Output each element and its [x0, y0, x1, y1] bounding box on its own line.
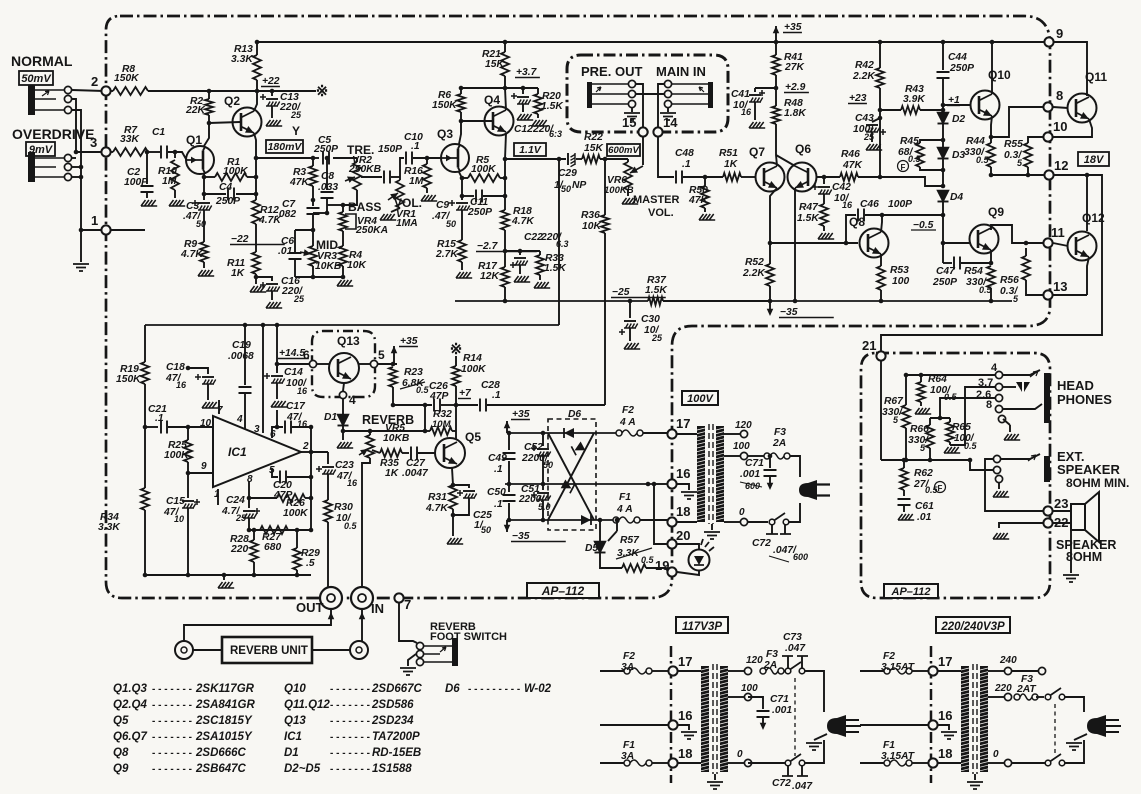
svg-text:- - - - - - -: - - - - - - - — [152, 764, 192, 775]
svg-text:.1: .1 — [682, 159, 691, 170]
wire — [256, 80, 258, 91]
transistor Q7 — [756, 163, 785, 192]
switch 220V bottom — [1045, 760, 1051, 766]
svg-text:250KA: 250KA — [355, 225, 388, 236]
wire bus to ground — [80, 230, 82, 262]
ground R50 — [699, 214, 715, 220]
ground R15 — [456, 272, 472, 278]
svg-text:2SA841GR: 2SA841GR — [195, 699, 256, 711]
box AP-112 main — [527, 583, 599, 598]
wire — [203, 262, 205, 268]
wire to C10 — [400, 158, 404, 177]
switch power — [769, 519, 775, 525]
wire lamp feed — [654, 484, 667, 544]
wire — [728, 696, 744, 698]
transistor Q11 — [1068, 94, 1097, 123]
transistor Q4 — [485, 107, 514, 136]
220/240V transformer dash-dot line — [930, 646, 933, 783]
svg-text:C73: C73 — [783, 632, 802, 643]
ground foot switch — [408, 654, 416, 666]
svg-text:C42: C42 — [832, 182, 851, 193]
contact 4 — [339, 391, 346, 398]
svg-text:Q1: Q1 — [186, 133, 202, 147]
contact 240 — [1038, 667, 1045, 674]
wire — [296, 570, 298, 575]
svg-text:R64: R64 — [928, 374, 947, 385]
wire — [452, 509, 454, 536]
wire — [456, 404, 478, 406]
wire pin14 down to C48 — [658, 136, 674, 177]
svg-text:C23: C23 — [335, 460, 354, 471]
svg-text:17: 17 — [938, 654, 952, 669]
svg-text:D5: D5 — [585, 543, 598, 554]
resistor R15 — [458, 240, 466, 262]
svg-text:C18: C18 — [166, 362, 185, 373]
wire Q2 emitter down — [254, 133, 256, 200]
svg-text:R54: R54 — [964, 266, 983, 277]
svg-text:1.5K: 1.5K — [541, 101, 564, 112]
capacitor C27 — [411, 447, 417, 460]
fuse F3 — [764, 453, 770, 459]
svg-text:4: 4 — [991, 362, 998, 374]
wire — [508, 484, 510, 492]
wire -35 rail — [770, 300, 1012, 302]
switch 117V top — [785, 668, 791, 674]
wire — [504, 230, 506, 267]
wire — [187, 508, 189, 575]
wire — [327, 204, 343, 206]
svg-text:D2: D2 — [952, 114, 965, 125]
wire Q10 collector to rail — [991, 42, 993, 94]
wire — [629, 328, 631, 341]
svg-text:16: 16 — [678, 708, 692, 723]
svg-text:C61: C61 — [915, 501, 934, 512]
resistor R43 — [901, 106, 920, 114]
wire — [880, 290, 882, 301]
wire — [187, 462, 189, 473]
contact ext ring — [993, 466, 1000, 473]
wire — [505, 250, 540, 252]
wire — [912, 670, 928, 672]
fuse F2 220V — [884, 668, 890, 674]
svg-text:250P: 250P — [467, 207, 492, 218]
wire — [938, 762, 961, 764]
svg-text:0.5: 0.5 — [416, 385, 430, 395]
wire — [600, 670, 624, 672]
svg-text:D1: D1 — [324, 412, 337, 423]
wire C28 to R36 rail — [487, 404, 605, 406]
svg-text:10: 10 — [1053, 119, 1067, 134]
contact 3.7 — [995, 383, 1002, 390]
wire — [604, 159, 606, 215]
junction — [311, 156, 316, 161]
ground headphone — [1009, 425, 1011, 432]
svg-text:C17: C17 — [286, 401, 306, 412]
wire 0V rail — [505, 483, 655, 485]
wire — [247, 176, 256, 178]
svg-text:D6: D6 — [568, 409, 581, 420]
capacitor C73 — [787, 656, 789, 668]
ground PRE OUT sleeve — [631, 108, 633, 112]
wire — [253, 562, 255, 575]
svg-text:R14: R14 — [463, 353, 482, 364]
wire IC pin 6 — [272, 427, 277, 438]
wire 16 row — [600, 724, 668, 726]
wire — [600, 553, 622, 568]
svg-text:3.3K: 3.3K — [231, 54, 254, 65]
capacitor C6 — [294, 230, 296, 252]
wiper VR5 to R35 — [372, 450, 380, 453]
resistor R47 — [820, 204, 828, 226]
wire — [462, 195, 474, 197]
wire to D4 — [880, 177, 943, 186]
wire tap 120 — [724, 433, 740, 435]
fuse F3 220V — [1014, 694, 1020, 700]
wire — [942, 159, 944, 186]
wire to C23 — [311, 451, 328, 453]
svg-text:.01: .01 — [917, 512, 932, 523]
ground VR1 — [380, 214, 396, 220]
PRE OUT / MAIN IN dash-dot box — [567, 55, 728, 132]
svg-text:16: 16 — [938, 708, 952, 723]
contact 6 — [309, 360, 316, 367]
ground MAIN IN sleeve — [667, 108, 669, 112]
pin 22 — [1043, 518, 1052, 527]
diode D4 — [938, 191, 949, 202]
svg-text:C43: C43 — [855, 113, 874, 124]
svg-text:150K: 150K — [114, 73, 140, 84]
wire — [392, 387, 394, 405]
ground C43 — [866, 144, 882, 150]
svg-text:.001: .001 — [772, 705, 792, 716]
svg-text:SPEAKER: SPEAKER — [1057, 462, 1120, 477]
wire — [860, 762, 884, 764]
svg-text:180mV: 180mV — [268, 141, 303, 153]
svg-text:7: 7 — [404, 597, 411, 612]
svg-text:16: 16 — [741, 107, 752, 117]
svg-text:+2.9: +2.9 — [785, 82, 806, 93]
wire — [393, 346, 395, 364]
wire — [506, 520, 508, 532]
wire — [402, 452, 409, 454]
svg-text:13: 13 — [1053, 279, 1067, 294]
svg-text:250P: 250P — [313, 144, 338, 155]
svg-text:100K: 100K — [223, 166, 249, 177]
svg-text:18: 18 — [676, 504, 690, 519]
svg-text:8OHM MIN.: 8OHM MIN. — [1066, 476, 1129, 490]
svg-text:C50: C50 — [487, 487, 506, 498]
resistor R52 — [766, 264, 774, 286]
wire pin1 stub — [110, 229, 145, 231]
svg-text:C71: C71 — [745, 458, 764, 469]
wire — [748, 455, 764, 457]
ground R9 — [198, 270, 214, 276]
jack MAIN IN — [708, 82, 713, 108]
capacitor C29 NP — [567, 153, 569, 165]
wire Q6 base row — [816, 176, 840, 178]
wire pin 22 to speaker — [1052, 522, 1071, 524]
wire — [1025, 248, 1027, 256]
resistor R57 — [622, 564, 646, 572]
svg-text:0.5: 0.5 — [925, 485, 939, 495]
wire — [990, 167, 992, 175]
resistor R32 — [430, 427, 452, 435]
resistor R2 — [205, 99, 213, 115]
svg-text:R44: R44 — [966, 136, 985, 147]
junction — [202, 175, 207, 180]
RCA plug left — [175, 641, 193, 659]
ground plug 117V — [814, 734, 827, 740]
svg-text:250P: 250P — [215, 196, 240, 207]
RCA plug right — [350, 641, 368, 659]
AC plug 117V — [827, 715, 846, 737]
capacitor C2 — [146, 152, 148, 184]
resistor R33 — [539, 251, 541, 255]
resistor R42 — [876, 68, 884, 88]
junction — [503, 249, 508, 254]
wire reverb feed row — [343, 430, 425, 432]
wire — [461, 178, 463, 200]
wire Q8 base row — [770, 242, 858, 244]
wire — [769, 286, 771, 301]
svg-text:0.5: 0.5 — [976, 155, 990, 165]
svg-text:0: 0 — [739, 507, 745, 518]
svg-text:.0047: .0047 — [402, 468, 429, 479]
resistor R11 — [252, 252, 260, 274]
resistor R22 — [582, 155, 600, 163]
wire fuse to pin 17 — [655, 432, 668, 434]
wire — [204, 193, 226, 195]
svg-text:16: 16 — [347, 478, 358, 488]
svg-text:1K: 1K — [724, 159, 739, 170]
wire — [312, 266, 314, 277]
capacitor C61 — [898, 499, 911, 505]
svg-text:25: 25 — [235, 513, 247, 523]
wire — [504, 159, 506, 210]
svg-text:R31: R31 — [428, 492, 447, 503]
svg-text:R36: R36 — [581, 210, 600, 221]
wire contact 5 node — [378, 363, 397, 365]
svg-text:.047: .047 — [792, 781, 813, 792]
contact ext tip — [993, 455, 1000, 462]
svg-text:C24: C24 — [226, 495, 245, 506]
wire Q9 base — [943, 242, 970, 244]
wire — [343, 383, 344, 391]
svg-text:C72: C72 — [772, 778, 791, 789]
box REVERB UNIT — [222, 637, 312, 663]
wire — [704, 177, 706, 186]
pin 15 — [638, 127, 647, 136]
wire to Q3 gate — [413, 157, 441, 159]
svg-text:680: 680 — [264, 542, 281, 553]
svg-text:6: 6 — [303, 348, 310, 362]
capacitor C12 — [522, 88, 524, 94]
svg-text:IC1: IC1 — [228, 445, 247, 459]
svg-text:C15: C15 — [166, 496, 185, 507]
resistor R31 — [449, 485, 457, 509]
fuse F1 117V — [624, 760, 630, 766]
svg-text:27K: 27K — [784, 62, 805, 73]
svg-text:0.5: 0.5 — [344, 521, 358, 531]
resistor R55 — [1024, 143, 1032, 167]
wire — [754, 102, 756, 120]
wire — [949, 442, 951, 445]
svg-text:- - - - - - -: - - - - - - - — [152, 684, 192, 695]
resistor R5 — [468, 174, 500, 182]
wire — [748, 762, 785, 764]
wire to Q4 base — [461, 120, 493, 122]
svg-text:−25: −25 — [612, 287, 630, 298]
wire — [248, 498, 250, 508]
ground plug 220V — [1074, 734, 1087, 740]
wire — [508, 461, 510, 484]
svg-text:C71: C71 — [770, 694, 789, 705]
wire — [678, 762, 701, 764]
wire — [255, 274, 257, 284]
ground Q5 — [447, 538, 463, 544]
svg-text:−22: −22 — [231, 234, 249, 245]
ground R64 — [915, 408, 931, 414]
resistor R19 — [141, 362, 149, 384]
wire — [920, 375, 922, 382]
svg-text:4.7K: 4.7K — [511, 216, 535, 227]
potentiometer VR4 BASS — [339, 212, 347, 231]
svg-text:Q2.Q4: Q2.Q4 — [113, 699, 147, 711]
wire — [542, 500, 544, 520]
wire — [391, 176, 400, 178]
arrow -35 — [767, 309, 774, 316]
wire — [652, 762, 668, 764]
svg-text:AP–112: AP–112 — [541, 584, 585, 598]
power transformer 220V — [961, 666, 969, 772]
wire — [903, 490, 905, 496]
wire — [988, 670, 1004, 672]
svg-text:2.7K: 2.7K — [435, 249, 459, 260]
svg-text:C14: C14 — [284, 367, 303, 378]
wire contact 6 to C14 — [277, 363, 309, 365]
svg-text:C1: C1 — [152, 127, 165, 138]
speaker section dash-dot border — [861, 353, 1050, 598]
svg-text:2SD667C: 2SD667C — [371, 683, 423, 695]
wire -25 rail — [455, 300, 648, 302]
svg-text:19: 19 — [655, 558, 669, 573]
wire — [248, 518, 250, 530]
pin 16 — [667, 479, 676, 488]
svg-text:14: 14 — [663, 115, 678, 130]
wire — [1036, 696, 1044, 698]
resistor R41 — [772, 55, 780, 75]
wire — [942, 42, 944, 70]
resistor R54 — [987, 266, 995, 288]
wire Q7 emitter down — [770, 188, 777, 264]
wire — [148, 151, 160, 153]
capacitor C72 — [771, 525, 773, 534]
wire — [253, 530, 255, 540]
wire signal row — [505, 158, 566, 160]
svg-text:R23: R23 — [404, 367, 423, 378]
ground C14 — [271, 401, 287, 407]
svg-text:25: 25 — [863, 132, 875, 142]
wire Q3 source — [459, 172, 462, 178]
wire IC pin 3 — [262, 325, 264, 433]
svg-text:47K: 47K — [289, 177, 310, 188]
wire — [652, 670, 668, 672]
wire VR2 bottom to BASS — [343, 190, 357, 205]
svg-text:50: 50 — [561, 184, 571, 194]
svg-text:R22: R22 — [584, 132, 603, 143]
wire — [871, 132, 873, 142]
pin 20 — [667, 539, 676, 548]
wire headphone 4 row — [906, 374, 999, 376]
ground R20 — [532, 120, 548, 126]
transistor Q12 — [1068, 232, 1097, 261]
wire — [655, 483, 660, 485]
wire — [683, 176, 723, 178]
transistor Q13 — [329, 353, 359, 383]
wire — [748, 521, 768, 523]
svg-text:3.9K: 3.9K — [903, 94, 926, 105]
svg-text:D4: D4 — [950, 192, 963, 203]
wire sleeve bus — [72, 110, 81, 230]
junction — [1085, 173, 1090, 178]
Q13 dash-dot box — [312, 331, 375, 397]
wire IN jack from reverb unit — [361, 609, 363, 641]
svg-text:250KB: 250KB — [348, 164, 382, 175]
svg-text:.1: .1 — [411, 141, 420, 152]
wire Q8 emitter — [880, 254, 882, 266]
resistor R17 — [501, 267, 509, 287]
svg-text:D1: D1 — [284, 747, 299, 759]
svg-text:IN: IN — [371, 601, 384, 616]
wire — [144, 384, 146, 427]
svg-text:- - - - - - -: - - - - - - - — [330, 732, 370, 743]
wire — [942, 79, 944, 108]
wire hp tip — [1003, 370, 1040, 375]
svg-text:1S1588: 1S1588 — [372, 763, 412, 775]
wire — [244, 394, 246, 429]
svg-text:Q2: Q2 — [224, 94, 240, 108]
resistor R8 — [113, 87, 148, 95]
resistor R18 — [501, 210, 509, 230]
svg-text:Q9: Q9 — [113, 763, 129, 775]
wire Q3 drain — [459, 112, 461, 144]
svg-text:.0068: .0068 — [228, 351, 254, 362]
svg-text:R52: R52 — [745, 257, 764, 268]
wire to Q7 base — [741, 176, 756, 178]
bridge diodes — [548, 433, 594, 520]
ground pin 16 117V — [678, 725, 689, 730]
svg-text:- - - - - - -: - - - - - - - — [330, 764, 370, 775]
wire — [600, 762, 624, 764]
transistor Q3 — [441, 144, 469, 172]
svg-text:18: 18 — [938, 746, 952, 761]
svg-text:4.7K: 4.7K — [425, 503, 449, 514]
junction +23 — [878, 108, 883, 113]
pilot lamp — [677, 544, 699, 549]
capacitor C22 — [519, 251, 521, 255]
fuse F2 — [616, 430, 622, 436]
wire to plug 117V — [805, 671, 824, 712]
svg-text:2SB647C: 2SB647C — [195, 763, 247, 775]
wire hp sleeve — [1003, 419, 1010, 425]
wire Q10 emitter — [991, 116, 992, 143]
wire IC pin 7 stub — [218, 400, 220, 414]
svg-text:Q6.Q7: Q6.Q7 — [113, 731, 147, 743]
svg-text:10: 10 — [200, 418, 212, 429]
contact fsw 3 — [416, 658, 423, 665]
wire Q6 collector — [776, 155, 795, 166]
jack IN — [351, 587, 373, 609]
